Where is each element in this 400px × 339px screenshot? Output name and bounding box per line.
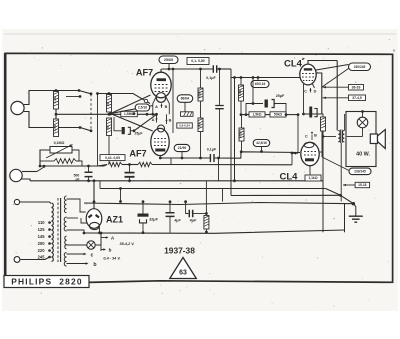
junction C5 on return line [128, 179, 131, 182]
wire R1 to grid bus [55, 109, 57, 119]
junction grid bus at R3R4 [108, 113, 111, 116]
switch contact dot upper-left [78, 89, 81, 92]
svg-text:AZ1: AZ1 [106, 215, 123, 225]
mains secondary winding fil2 [65, 236, 67, 249]
title box PHILIPS 2820 [4, 276, 89, 288]
svg-text:0,1M: 0,1M [53, 124, 57, 131]
wire primary mid lead [323, 136, 336, 138]
wire heater drop [100, 233, 102, 251]
tube AF7 V1 bottom dome [156, 93, 166, 103]
svg-text:0,2M: 0,2M [198, 91, 202, 98]
arrow stem b3 [101, 249, 105, 251]
wire grid feed AF7-1 [98, 94, 151, 104]
label box 37-4,5 [349, 95, 366, 101]
svg-text:220: 220 [38, 248, 46, 253]
wire V3 anode top [308, 61, 337, 65]
oval label 21/90 [174, 144, 190, 151]
paper speckle texture [13, 37, 390, 307]
wire Z1 right [76, 161, 82, 166]
capacitor C8 4uF [189, 210, 192, 218]
label box 0,6-0,24 [177, 123, 193, 128]
mains core solid [60, 198, 62, 262]
mains tap dot 220 [48, 249, 51, 252]
mark top-right corner [393, 49, 395, 52]
junction grid bus right [146, 113, 149, 116]
svg-text:pF: pF [76, 178, 80, 182]
svg-text:36-39: 36-39 [352, 85, 361, 89]
wire C9 stub top [169, 202, 171, 213]
wire oval diagonal 1 [316, 65, 349, 71]
wire screen row right [286, 114, 298, 116]
wire V3 lead right [312, 83, 315, 88]
wire field coil stem top [362, 112, 364, 118]
wire C5 down [129, 177, 131, 181]
junction AZ1 bottom [98, 231, 101, 234]
svg-text:4μF: 4μF [189, 219, 197, 223]
wire R15 bottom [205, 229, 207, 232]
svg-text:68/6A: 68/6A [181, 97, 190, 101]
wire V2 pin stem B [166, 114, 168, 124]
svg-text:b: b [93, 262, 96, 268]
wire 4uF stub [186, 202, 189, 214]
triangle logo 63 [170, 258, 197, 279]
wire fil3 lead c [67, 253, 85, 255]
tube AF7 V2 top dome [158, 125, 165, 132]
transformer core line 1 [339, 130, 341, 144]
capacitor C9 4uF [166, 213, 175, 217]
svg-text:42,5/16: 42,5/16 [256, 141, 267, 145]
gramo switch dot [43, 165, 46, 168]
switch stub dot [79, 95, 82, 98]
wire return line A right [321, 180, 323, 182]
junction x173 top [172, 68, 175, 71]
arrowhead 36-39 [323, 86, 326, 89]
svg-text:1937-38: 1937-38 [164, 245, 195, 255]
junction B x120 [119, 187, 122, 190]
wire gramo bottom lead [22, 179, 30, 181]
wire cathode mid [122, 164, 138, 166]
oval label 2,5/16 [135, 104, 150, 111]
junction primary feed dot [322, 135, 325, 138]
junction AZ1 HT [93, 200, 96, 203]
wire bypass loop right [275, 104, 287, 115]
svg-text:0,1- 0,80: 0,1- 0,80 [191, 59, 204, 63]
wire pot right lead [72, 150, 79, 161]
wire bypass loop left [246, 104, 263, 115]
junction V2 grid stub top [155, 113, 158, 116]
wire C6 top stub [88, 166, 90, 172]
wire switch stub upper small [66, 96, 80, 98]
wire oval diagonal 2 [322, 69, 349, 88]
junction C x120 [119, 200, 122, 203]
junction oval40 stub [257, 76, 260, 79]
svg-text:A: A [155, 105, 158, 109]
wire R12 bottom [241, 141, 243, 152]
arrow line cathode [293, 152, 298, 154]
wire diag to ground [341, 195, 354, 203]
junction C6 bottom [87, 179, 90, 182]
wire field coil stem bottom [362, 128, 364, 137]
wire R13 column down [322, 131, 324, 232]
svg-text:25/65: 25/65 [164, 58, 173, 62]
resistor R11 0.5M [239, 85, 244, 101]
pin arrow V1 [160, 104, 162, 107]
wire V3 cathode down [304, 84, 322, 114]
junction R15 top wire [205, 212, 208, 215]
pin arrow V4 up [311, 132, 313, 135]
oval label 68/6A [177, 95, 193, 103]
arrow stem A [101, 237, 107, 239]
junction R11 top [240, 76, 243, 79]
label box 36-39 [349, 85, 364, 91]
ground symbol [349, 216, 363, 222]
potentiometer arrowhead [70, 145, 73, 147]
pin arrow A V2 up [155, 118, 157, 121]
svg-text:230/245: 230/245 [354, 170, 366, 174]
arrowhead b3 [103, 248, 106, 250]
junction V2 anode line [159, 157, 162, 160]
svg-text:0,5M: 0,5M [238, 89, 242, 96]
svg-text:CL4: CL4 [280, 172, 299, 183]
junction C4 right [217, 157, 220, 160]
wire fan diagonal F4 [111, 114, 153, 131]
svg-text:c: c [91, 252, 94, 258]
wire aerial bottom lead [24, 112, 80, 128]
junction screen row right [297, 113, 300, 116]
junction ground entry [352, 202, 355, 205]
tube AZ1 bottom dome [90, 222, 100, 229]
resistor R15 bleeder [204, 216, 209, 230]
ground stem [353, 204, 355, 216]
wire V3 screen tap [316, 73, 322, 114]
svg-text:200: 200 [38, 241, 46, 246]
capacitor C7 bracket [272, 100, 275, 108]
junction 32uF bottom [142, 231, 145, 234]
wire link B-C x120 [120, 189, 122, 202]
junction V234 top [233, 76, 236, 79]
junction pot left on line [39, 165, 42, 168]
wire bottom bus y232 [84, 230, 345, 233]
oval label 25/65 [159, 56, 178, 64]
arrow into cathode [293, 152, 296, 155]
wire R6 top lead [200, 69, 202, 88]
wire grid line CL4 lower [241, 152, 300, 158]
wire C8 to resistor [193, 213, 207, 215]
svg-text:C: C [305, 135, 308, 139]
svg-text:D: D [314, 90, 317, 94]
svg-text:0,6-0,24: 0,6-0,24 [179, 124, 190, 128]
wire switch contact lower [80, 128, 91, 131]
svg-text:CL4: CL4 [284, 59, 303, 70]
label box 15-18 [355, 182, 370, 187]
svg-text:AF7: AF7 [136, 68, 153, 78]
svg-text:1,5kΩ: 1,5kΩ [252, 113, 261, 117]
junction H1 at C2 [218, 68, 221, 71]
wire switch pole down [97, 94, 99, 167]
wire 32uF stub top [142, 202, 144, 214]
junction V234 bottom [233, 179, 236, 182]
wire screen row left [241, 114, 249, 116]
svg-text:32μF: 32μF [149, 218, 159, 222]
oval label 230/245 lower [349, 168, 371, 175]
resistor R13 field bias [321, 117, 326, 131]
wire AZ1 cathode up [93, 181, 95, 209]
wire heater elbow up [291, 154, 293, 165]
mains core dashed [57, 198, 59, 262]
oval label 230/245 upper [349, 63, 371, 71]
wire C6 bottom stub [88, 177, 90, 181]
svg-text:0,1MΩ: 0,1MΩ [54, 141, 65, 145]
svg-text:125: 125 [38, 227, 46, 232]
wire anode bus H1 [162, 68, 214, 70]
svg-text:4μF: 4μF [173, 219, 181, 223]
wire grid bus H6 right [137, 113, 156, 115]
mains secondary winding HT [64, 196, 66, 213]
mains secondary winding fil1 [64, 217, 66, 231]
junction R1-R2 grid bus [55, 113, 58, 116]
wire line B y188 [100, 188, 326, 190]
mains tap dot 125 [48, 228, 51, 231]
mains transformer primary [52, 203, 54, 262]
svg-text:15-18: 15-18 [358, 183, 367, 187]
wire V1 anode up [160, 69, 162, 72]
wire return line A left [30, 180, 305, 182]
capacitor C1 bracket [128, 127, 131, 134]
wire V2 anode line y158 [160, 157, 210, 159]
capacitor C10 bracket [140, 219, 147, 223]
arrowhead c [84, 253, 87, 256]
junction field coil top [361, 110, 364, 113]
wire R11 bottom [240, 101, 242, 115]
junction V1 stub [151, 113, 154, 116]
junction aerial top bus [55, 89, 58, 92]
arrow line 15-18 [343, 184, 355, 186]
svg-text:40/0,16: 40/0,16 [255, 82, 266, 86]
junction bypass right [285, 113, 288, 116]
wire V4 right stub [319, 151, 322, 153]
wire H1 after C2 [217, 68, 231, 70]
wire screen drop x173 [172, 69, 174, 133]
label box 50k [270, 112, 286, 117]
gramophone input terminal [10, 169, 22, 181]
pin arrow stem V3 [310, 88, 312, 93]
svg-text:B: B [169, 119, 172, 123]
aerial input terminal [11, 101, 24, 114]
wire R4 bottom down [108, 136, 110, 165]
arrowhead b2 [86, 262, 89, 265]
wire V x322 upper [321, 131, 323, 157]
wire C1 left L-wire [114, 117, 121, 131]
svg-text:0,1M: 0,1M [53, 96, 57, 103]
tube CL4 V4 [301, 142, 319, 165]
svg-text:PHILIPS 2820: PHILIPS 2820 [11, 277, 82, 287]
wire C1 right stub [130, 130, 134, 132]
wire C3 column upper [219, 69, 221, 106]
resistor R4 grid leak lower [107, 118, 112, 136]
wire AZ1 bottom lead [99, 228, 101, 234]
frame left edge thick [4, 53, 7, 284]
switch contact dot upper-right [90, 92, 93, 95]
svg-text:145: 145 [38, 234, 46, 239]
capacitor C2 0.1uF series [213, 65, 216, 73]
arrow line 36-39 [323, 86, 349, 88]
junction oval21/90 [181, 157, 184, 160]
resistor R6 anode upper [198, 88, 203, 101]
wire bypass top feed [252, 78, 254, 104]
junction R15 bottom [205, 231, 208, 234]
svg-text:21/90: 21/90 [178, 146, 187, 150]
wire elbow x222 [222, 189, 224, 202]
label box 0,42-0,65 [100, 155, 125, 161]
wire V x234 [234, 78, 236, 181]
wire 32uF stub bottom [142, 223, 144, 233]
junction heater on grid line [291, 152, 294, 155]
wire mains terminal upper lead [20, 202, 51, 204]
svg-text:38-4,2 V.: 38-4,2 V. [119, 242, 134, 246]
wire R12 top [241, 115, 243, 128]
wire diag B down [326, 189, 341, 196]
wire fil1 lead b [67, 230, 85, 233]
svg-text:2M: 2M [106, 125, 110, 130]
wire C4 down to return [218, 158, 220, 181]
junction fan hub [109, 112, 112, 115]
svg-text:b: b [109, 248, 112, 253]
mains tap leads [50, 223, 52, 258]
wire V2 anode down stub [159, 156, 161, 159]
wire oval 21/90 stub [181, 152, 183, 158]
wire heater line right [171, 164, 292, 166]
wire elbow right down [344, 204, 346, 233]
label box 1,1k cathode [305, 175, 321, 181]
junction C6 top [87, 165, 90, 168]
wire transformer drop x340 [340, 143, 342, 202]
wire cathode up elbow [170, 158, 172, 165]
svg-text:25μF: 25μF [276, 94, 285, 98]
wire mains terminal lead [20, 257, 50, 260]
junction R11 bottom [240, 113, 243, 116]
arrowhead A [106, 236, 109, 238]
svg-text:C: C [304, 90, 307, 94]
svg-text:AF7: AF7 [129, 149, 146, 159]
wire gramo top lead [22, 171, 37, 173]
svg-text:40 W.: 40 W. [356, 152, 370, 158]
wire H2 grid bus CL4 [231, 77, 301, 79]
paper edge fold line [4, 33, 396, 35]
junction R7 bottom on signal line [199, 157, 202, 160]
wire fan diagonal F1 [111, 95, 151, 114]
svg-text:50k: 50k [198, 122, 202, 127]
capacitor C3 to chassis [215, 106, 224, 109]
switch contact dot lower-right [90, 129, 93, 132]
capacitor C10 32uF plate [138, 214, 149, 217]
junction H1 oval stub [168, 68, 171, 71]
svg-text:25μF: 25μF [135, 132, 143, 136]
capacitor C6 500pF [85, 172, 93, 176]
svg-text:A: A [152, 118, 155, 122]
svg-text:0,42- 0,65: 0,42- 0,65 [105, 156, 120, 160]
wire cathode line left [98, 165, 108, 167]
wire C9 stub bottom [169, 216, 171, 232]
arrow line 37-4,5 [323, 97, 349, 99]
junction H1 at R6 [199, 68, 202, 71]
capacitor C4 0.1uF coupling [210, 154, 214, 162]
wire fan diagonal F5 [134, 115, 156, 131]
dial lamp [87, 241, 95, 249]
tube AF7 V2 [151, 128, 169, 155]
wire V1 lead right [166, 96, 170, 114]
wire cathode elbow to R13 [322, 114, 323, 117]
resistor R1 0.1M aerial top [54, 92, 59, 110]
wire C3 column lower [219, 109, 221, 158]
wire AZ1 left step [81, 218, 87, 223]
resistor R2 0.1M aerial bottom [54, 119, 59, 137]
wire oval 40 stub [257, 78, 259, 81]
speaker [370, 130, 385, 149]
wire R6 to R7 [200, 101, 202, 118]
wire fil2 lead to lamp [67, 244, 87, 246]
svg-text:37-4,5: 37-4,5 [352, 96, 362, 100]
wire pot left lead [40, 150, 50, 166]
mains tap dot 200 [48, 242, 51, 245]
svg-text:245: 245 [38, 254, 46, 259]
wire V4 cathode to box [309, 166, 311, 175]
wire fil3 lead b2 [67, 263, 87, 265]
resistor R5 0.2M coupling [181, 112, 194, 117]
wire switch link dashed [90, 94, 92, 131]
svg-text:B: B [314, 134, 317, 138]
wire lamp right [95, 233, 101, 245]
junction oval42 stub [260, 150, 263, 153]
capacitor C11 cathode plate [309, 107, 312, 118]
capacitor C1 25uF plate [122, 127, 125, 134]
pin arrow V3 [309, 88, 311, 91]
label box 0,1-0,80 [187, 58, 209, 65]
field coil symbol [357, 117, 368, 128]
wire C5 stub [129, 165, 131, 173]
junction fil lead on bus [83, 232, 86, 235]
wire screen row mid [265, 114, 270, 116]
wire oval 42,5 stub [261, 147, 263, 152]
wire Z1 line [40, 160, 54, 162]
potentiometer P1 [50, 147, 72, 154]
tube CL4 V4 top dome [304, 142, 314, 147]
junction bypass feed top [252, 76, 255, 79]
junction AZ1 on line A [93, 179, 96, 182]
svg-text:0,1μF: 0,1μF [206, 76, 216, 80]
wire main line y166 [40, 165, 107, 167]
wire fil1 lead a [67, 217, 79, 219]
wire V1 lead left [153, 96, 157, 114]
wire V x231 [230, 69, 232, 196]
potentiometer arrow [46, 145, 73, 159]
wire oval 25/65 stub [168, 64, 170, 70]
wire line C y201 [84, 203, 353, 205]
svg-text:2,5/16: 2,5/16 [138, 106, 147, 110]
resistor R8 cathode zigzag 1 [108, 162, 122, 166]
svg-text:0,7M: 0,7M [239, 131, 243, 138]
oval label 42,5/16 [253, 140, 270, 147]
wire R11 top [240, 78, 242, 86]
junction R12 bottom [240, 150, 243, 153]
svg-text:2M: 2M [106, 101, 110, 106]
resistor R12 grid leak CL4 [239, 128, 244, 141]
tube AF7 V1 [151, 72, 171, 98]
wire secondary top lead [344, 114, 346, 131]
wire oval 68/6A stub [184, 102, 186, 111]
wire V x206 upper [205, 181, 207, 216]
wire grid bus H6 left [56, 113, 121, 115]
tube CL4 V3 [300, 64, 316, 85]
